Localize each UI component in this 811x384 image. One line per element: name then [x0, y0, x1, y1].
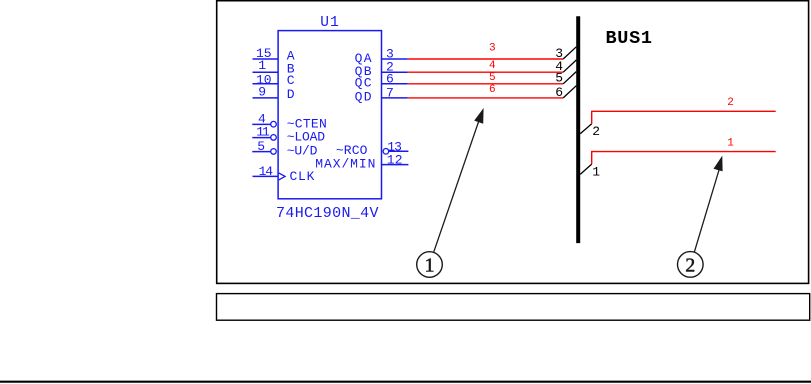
bus entry 5	[555, 71, 576, 86]
svg-text:74HC190N_4V: 74HC190N_4V	[276, 205, 379, 222]
svg-text:7: 7	[386, 85, 394, 100]
svg-text:11: 11	[256, 125, 270, 140]
pin ~U/D (5)	[252, 139, 317, 159]
svg-text:QD: QD	[355, 90, 372, 105]
svg-text:14: 14	[259, 164, 274, 179]
bus entry 6	[555, 85, 576, 100]
svg-text:12: 12	[387, 153, 403, 168]
IC body 74HC190	[278, 31, 381, 199]
pin D (9)	[253, 85, 295, 103]
svg-text:1: 1	[425, 255, 435, 277]
svg-text:6: 6	[489, 84, 496, 96]
wire QC to bus (net 5)	[408, 72, 563, 84]
svg-text:D: D	[287, 87, 295, 102]
bus entry 4	[555, 59, 576, 74]
svg-text:~U/D: ~U/D	[287, 143, 318, 158]
bus BUS1	[578, 16, 652, 243]
svg-text:U1: U1	[320, 15, 339, 31]
svg-text:C: C	[287, 73, 295, 88]
svg-text:5: 5	[555, 71, 563, 86]
pin ~CTEN (4)	[252, 112, 327, 132]
pin MAX/MIN (12)	[315, 153, 408, 172]
svg-text:3: 3	[489, 43, 496, 55]
svg-text:QC: QC	[355, 76, 372, 91]
svg-text:1: 1	[258, 58, 266, 73]
footer rule	[0, 381, 811, 383]
svg-text:2: 2	[685, 254, 695, 276]
callout arrow 1	[417, 108, 484, 277]
pin B (1)	[253, 58, 295, 77]
caption box (empty)	[217, 294, 810, 321]
wire net 1 from bus	[592, 137, 776, 164]
wire QB to bus (net 4)	[408, 60, 563, 72]
schematic frame (main figure border)	[217, 1, 809, 284]
svg-text:BUS1: BUS1	[606, 28, 653, 49]
svg-text:1: 1	[727, 137, 734, 149]
svg-text:2: 2	[592, 124, 600, 139]
svg-text:6: 6	[386, 71, 394, 86]
op-amp U1	[276, 15, 382, 222]
pin C (10)	[253, 72, 295, 88]
pin ~RCO (13)	[336, 139, 409, 158]
svg-text:4: 4	[489, 60, 496, 72]
pin ~LOAD (11)	[252, 125, 325, 145]
svg-text:9: 9	[258, 85, 266, 100]
svg-text:5: 5	[489, 72, 496, 84]
pin CLK (14) with clock triangle	[253, 164, 315, 184]
svg-text:1: 1	[592, 165, 600, 180]
pin QD (7)	[355, 85, 408, 104]
svg-text:6: 6	[555, 85, 563, 100]
wire QD to bus (net 6)	[408, 84, 563, 98]
callout arrow 2	[678, 156, 723, 278]
bus entry 3	[555, 46, 576, 61]
bus entry 1 (right side)	[580, 164, 600, 180]
pin QA (3)	[355, 47, 408, 66]
svg-text:~LOAD: ~LOAD	[287, 130, 326, 145]
pin QC (6)	[355, 71, 408, 90]
svg-text:MAX/MIN: MAX/MIN	[315, 157, 375, 172]
wire net 2 from bus	[592, 97, 776, 124]
svg-text:CLK: CLK	[290, 169, 315, 184]
bus entry 2 (right side)	[580, 124, 600, 139]
svg-text:2: 2	[727, 97, 734, 109]
svg-text:5: 5	[257, 139, 265, 154]
wire QA to bus (net 3)	[408, 43, 563, 60]
pin A (15)	[253, 46, 295, 63]
pin QB (2)	[355, 60, 408, 79]
